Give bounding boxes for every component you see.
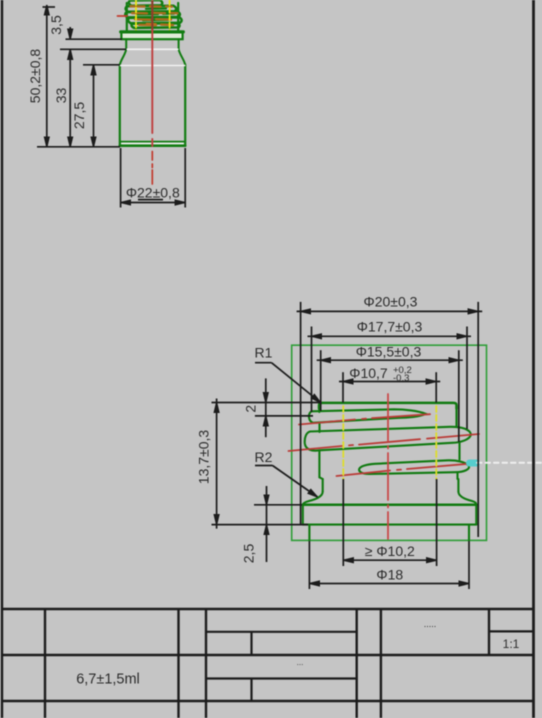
- neck below collar right: [178, 39, 180, 49]
- title block sub divider row2: [250, 679, 252, 702]
- collar top edge thick: [121, 30, 184, 33]
- detail boundary box: [292, 345, 487, 540]
- step wall right phi18: [468, 525, 470, 540]
- title block vertical x489 scale cell: [488, 609, 490, 655]
- title block vertical x206: [205, 609, 207, 718]
- thread capsule row E: [132, 23, 180, 28]
- red tick left of thread: [118, 15, 128, 17]
- frame left border: [1, 0, 3, 718]
- dim 2 lower tail arrow: [265, 416, 267, 429]
- phi17.7 ext left: [311, 327, 313, 413]
- phi20 ext right: [477, 302, 479, 537]
- svg-text:Φ20±0,3: Φ20±0,3: [364, 294, 418, 310]
- flare S-curve right: [458, 492, 476, 505]
- neck wall right above collar: [177, 3, 179, 30]
- ext line y64.6 body top: [83, 64, 120, 66]
- R1 leader underline: [255, 362, 272, 364]
- frame right border: [532, 0, 535, 718]
- dim 2.5 mid segment: [266, 505, 268, 525]
- phi10.2 ext right black part: [436, 479, 438, 566]
- dim 50.2 line: [46, 5, 48, 147]
- phi18 ext right: [468, 541, 470, 589]
- baseline extension: [37, 146, 120, 148]
- collar ring fill: [121, 32, 182, 39]
- right wall below T3: [456, 473, 458, 480]
- svg-text:2: 2: [243, 405, 259, 413]
- bottom inner line: [121, 141, 184, 143]
- title block row line 3: [2, 700, 534, 703]
- root ledge below threads left: [319, 477, 322, 479]
- white dashed section line: [477, 462, 542, 464]
- title block vertical x178: [177, 609, 179, 718]
- collar bottom edge: [303, 524, 477, 526]
- phi22 ext left: [120, 148, 122, 208]
- yellow bore line right: [169, 0, 171, 31]
- orange hatch row D: [135, 18, 171, 21]
- thread T3 crest (points left, right lobe): [359, 460, 469, 474]
- R2 leader: [273, 466, 318, 498]
- thread inner ridge B: [146, 7, 166, 10]
- phi18 dim line: [309, 583, 469, 585]
- svg-text:-0,3: -0,3: [393, 373, 409, 384]
- title block row line 2: [2, 654, 534, 657]
- lower neck wall right: [457, 479, 459, 492]
- thread capsule row B: [126, 6, 177, 12]
- shoulder left: [120, 50, 126, 65]
- orange hatch row E: [139, 23, 173, 26]
- phi10.7 ext right: [435, 372, 437, 402]
- left wall T1-T2: [318, 423, 320, 432]
- dim 2.5 lower tail arrow: [266, 525, 268, 537]
- left wall above T1: [318, 406, 320, 413]
- title block scale sub line: [489, 630, 534, 632]
- phi10.7 dim overshoot: [339, 381, 440, 383]
- svg-text:Φ18: Φ18: [376, 566, 403, 582]
- collar wall left: [302, 505, 304, 525]
- neck top edge: [319, 403, 457, 409]
- svg-text:27,5: 27,5: [71, 102, 87, 129]
- svg-text:6,7±1,5ml: 6,7±1,5ml: [76, 672, 140, 688]
- phi17.7 dim overshoot: [308, 335, 472, 337]
- title block top line: [2, 608, 534, 611]
- R2 leader underline: [255, 465, 273, 467]
- phi10.2 dim line: [343, 559, 436, 561]
- phi17.7 dim line: [312, 335, 468, 337]
- svg-text:R1: R1: [255, 345, 273, 361]
- phi10.7 ext left: [342, 372, 344, 402]
- phi20 dim line: [301, 310, 479, 312]
- dim 2.5 upper tail arrow: [266, 486, 268, 505]
- phi15.5 dim overshoot: [317, 359, 463, 361]
- white shoulder line: [121, 65, 185, 67]
- body wall left: [119, 65, 121, 146]
- orange tick below threads: [147, 23, 157, 25]
- phi22 ext right: [184, 148, 186, 208]
- collar wall right: [475, 505, 477, 525]
- svg-text:Φ22±0,8: Φ22±0,8: [126, 185, 180, 201]
- thread inner ridge D: [143, 19, 168, 22]
- svg-text:33: 33: [53, 88, 69, 104]
- svg-text:.....: .....: [424, 619, 437, 629]
- phi18 ext left: [308, 541, 310, 589]
- thread capsule row A: [129, 0, 162, 6]
- bottom outer edge thick: [120, 144, 185, 147]
- phi20 ext left: [300, 302, 302, 525]
- thread T2 crest (spans width, right lobe): [305, 427, 471, 451]
- yellow bore line left: [135, 0, 137, 31]
- dim 3.5 upper tail with arrow down: [69, 27, 71, 39]
- white neck line: [127, 48, 178, 50]
- svg-text:...: ...: [297, 658, 304, 667]
- title block vertical x357: [356, 609, 358, 718]
- svg-text:13,7±0,3: 13,7±0,3: [196, 430, 212, 485]
- thread capsule row D: [128, 17, 182, 23]
- thread T1 crest (points right): [309, 409, 426, 423]
- title block vertical x45: [44, 609, 46, 718]
- bottom white line: [122, 143, 183, 145]
- red centerline detail: [387, 394, 389, 539]
- dim 2 upper tail arrow: [265, 378, 267, 402]
- svg-text:Φ17,7±0,3: Φ17,7±0,3: [357, 318, 423, 334]
- dim 2.5 line lower tail: [266, 537, 268, 562]
- phi20 dim overshoot: [297, 310, 483, 312]
- phi22 text underline: [138, 199, 163, 201]
- R1 leader: [272, 363, 321, 403]
- right wall upper: [455, 406, 457, 426]
- dim 2 ext mid: [255, 415, 313, 417]
- dim 50.2 top tick: [43, 6, 56, 8]
- dim 13.7 overshoot: [216, 399, 218, 529]
- collar top edge: [303, 504, 477, 507]
- svg-text:Φ10,7: Φ10,7: [349, 365, 388, 381]
- left wall below T2: [318, 451, 320, 478]
- thread T2 axis red: [289, 434, 480, 451]
- right wall T2-T3: [458, 443, 460, 460]
- red centerline top view upper (dark in threads): [151, 0, 153, 30]
- thread capsule row C: [125, 12, 180, 18]
- svg-text:3,5: 3,5: [48, 15, 64, 35]
- step wall left phi18: [308, 525, 310, 540]
- body wall right: [184, 65, 186, 146]
- neck wall left above collar: [126, 3, 128, 30]
- title block vertical x381: [380, 609, 382, 718]
- svg-text:≥ Φ10,2: ≥ Φ10,2: [365, 543, 415, 559]
- dim 13.7 ext top: [212, 402, 322, 404]
- phi15.5 ext right: [458, 350, 460, 442]
- phi15.5 dim line: [321, 359, 459, 361]
- svg-text:2,5: 2,5: [241, 544, 257, 564]
- phi22 dim line: [121, 202, 186, 204]
- svg-text:Φ15,5±0,3: Φ15,5±0,3: [356, 344, 422, 360]
- yellow bore line right detail: [435, 406, 437, 479]
- phi10.2 ext left black part: [342, 479, 344, 566]
- orange hatch row B: [131, 5, 173, 8]
- neck below collar left: [125, 39, 127, 49]
- title block sub line row1 middle: [206, 631, 357, 633]
- orange hatch row C: [132, 12, 178, 15]
- dim 13.7 ext bottom: [212, 524, 309, 526]
- ext line y38.5 collar bottom: [66, 38, 123, 40]
- dim 13.7 line: [216, 403, 218, 525]
- title block sub divider row1: [250, 632, 252, 655]
- phi10.7 dim line: [343, 381, 436, 383]
- dim 2 line lower tail: [265, 429, 267, 438]
- title block sub line row2 middle: [206, 677, 357, 679]
- dim 33 line: [69, 49, 71, 147]
- collar ring outline: [121, 32, 182, 39]
- svg-text:1:1: 1:1: [503, 637, 520, 651]
- thread inner ridge C: [137, 13, 174, 16]
- cyan mark: [470, 460, 477, 467]
- svg-text:50,2±0,8: 50,2±0,8: [27, 49, 43, 104]
- red centerline top view body: [151, 30, 153, 146]
- dim 2.5 ext top: [254, 504, 302, 506]
- svg-text:R2: R2: [255, 449, 273, 465]
- phi17.7 ext right: [466, 327, 468, 430]
- ext line y49 neck-shoulder: [60, 48, 126, 50]
- flare S-curve left: [303, 492, 323, 505]
- phi15.5 ext left: [320, 350, 322, 411]
- yellow bore line left detail: [342, 406, 344, 479]
- shoulder right: [179, 50, 186, 65]
- thread T1 axis red: [299, 414, 430, 424]
- red centerline below bottle dash-dot: [151, 152, 153, 185]
- dim 27.5 line: [93, 65, 95, 147]
- lower neck wall left: [322, 479, 324, 492]
- thread T3 axis red: [337, 463, 481, 476]
- dim 2 mid segment: [265, 403, 267, 416]
